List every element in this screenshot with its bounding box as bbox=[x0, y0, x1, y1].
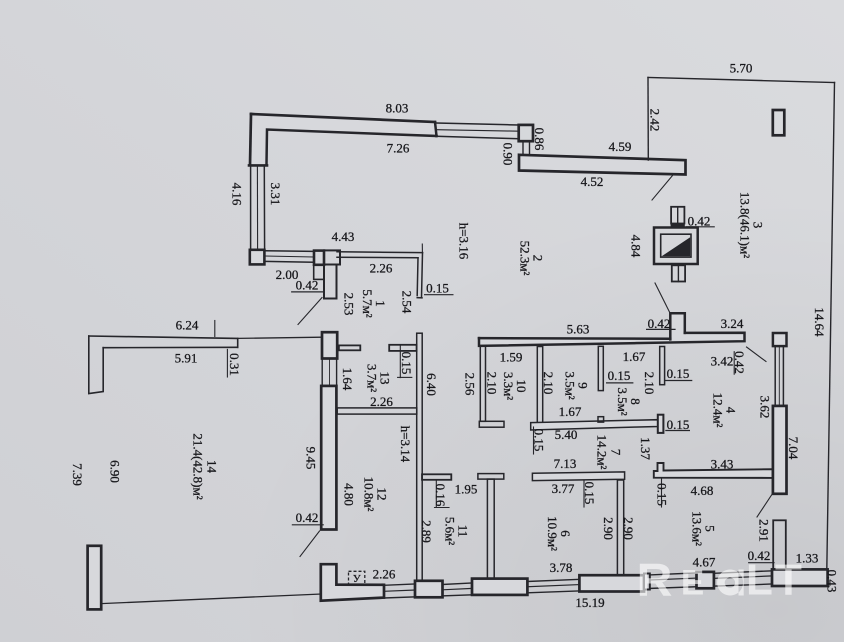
svg-text:0.15: 0.15 bbox=[426, 280, 449, 295]
svg-text:E: E bbox=[681, 564, 704, 603]
svg-text:T: T bbox=[775, 556, 802, 605]
svg-text:2.26: 2.26 bbox=[370, 261, 393, 276]
bottom corner bar 1.33 bbox=[772, 569, 828, 586]
bottom window lines 1 bbox=[384, 584, 415, 585]
left wall window 1.64 bbox=[322, 359, 336, 386]
svg-text:6.24: 6.24 bbox=[176, 318, 199, 333]
wall top right cap bbox=[435, 122, 437, 136]
bottom step notch bbox=[644, 574, 650, 590]
svg-text:5.6м²: 5.6м² bbox=[443, 517, 458, 545]
stove pipe top bbox=[671, 207, 684, 224]
wall rooms 8/4 bbox=[660, 347, 665, 385]
pier box B3 bbox=[314, 251, 324, 265]
pier end line B1 bbox=[249, 164, 267, 167]
pier room 11 bbox=[422, 474, 451, 480]
svg-text:0.42: 0.42 bbox=[732, 351, 747, 374]
stove inner bbox=[661, 234, 691, 257]
svg-text:52.3м²: 52.3м² bbox=[518, 241, 533, 276]
svg-text:2.91: 2.91 bbox=[757, 519, 772, 542]
room 6 right wall bbox=[617, 480, 623, 576]
wall band 4.59/4.52 bbox=[519, 155, 686, 175]
svg-text:2.90: 2.90 bbox=[621, 517, 636, 540]
wall top band fill bbox=[250, 114, 437, 166]
dim line 0.16 room 11 bbox=[435, 480, 437, 507]
svg-text:10.9м²: 10.9м² bbox=[545, 516, 560, 551]
svg-text:4.52: 4.52 bbox=[581, 174, 604, 189]
room 1 label bbox=[360, 289, 388, 317]
T cap wall room 11 bbox=[478, 474, 504, 480]
svg-text:4.80: 4.80 bbox=[342, 483, 357, 506]
door leader right 2.91 bbox=[757, 495, 772, 518]
svg-text:7.39: 7.39 bbox=[70, 463, 85, 486]
room 2 label bbox=[518, 241, 546, 276]
dim line 0.15 room 13 bbox=[399, 345, 401, 378]
bottom bar 2 bbox=[472, 579, 527, 595]
svg-text:14.64: 14.64 bbox=[812, 307, 827, 337]
svg-text:0.31: 0.31 bbox=[227, 353, 242, 376]
svg-text:13.6м²: 13.6м² bbox=[690, 511, 705, 546]
svg-text:0.42: 0.42 bbox=[296, 278, 319, 293]
room 3 outline left bbox=[647, 78, 649, 161]
svg-text:5.91: 5.91 bbox=[175, 351, 198, 366]
svg-text:2.10: 2.10 bbox=[541, 372, 556, 395]
room 14 top line continue bbox=[238, 337, 322, 338]
svg-text:1.67: 1.67 bbox=[623, 349, 646, 364]
room 1 wall right double bbox=[417, 253, 422, 298]
svg-text:15.19: 15.19 bbox=[575, 595, 604, 610]
pier P1 lower lines bbox=[523, 141, 530, 155]
room 9 label bbox=[563, 371, 591, 399]
room 14 left wall bbox=[89, 336, 103, 394]
dim line 0.42 right bbox=[733, 352, 735, 375]
svg-text:7: 7 bbox=[609, 449, 624, 456]
svg-text:5.40: 5.40 bbox=[555, 427, 578, 442]
room 11 label bbox=[443, 517, 471, 545]
svg-text:0.16: 0.16 bbox=[433, 484, 448, 507]
svg-text:21.4(42.8)м²: 21.4(42.8)м² bbox=[191, 433, 206, 499]
shelf right room 13 bbox=[389, 345, 416, 351]
room 3 window box bbox=[773, 110, 785, 135]
svg-text:4.84: 4.84 bbox=[629, 235, 644, 258]
room 5 label bbox=[690, 511, 718, 546]
svg-text:7.04: 7.04 bbox=[786, 437, 801, 460]
wall rooms 10/9 bbox=[537, 347, 542, 426]
room 3 outline top bbox=[648, 78, 835, 83]
room 10 label bbox=[501, 372, 529, 400]
svg-text:12.4м²: 12.4м² bbox=[711, 393, 726, 428]
room 14 top wall outer bbox=[89, 336, 238, 347]
svg-text:2.53: 2.53 bbox=[342, 293, 357, 316]
room 12 label bbox=[362, 477, 390, 512]
long wall 6.40/2.89 bbox=[417, 333, 423, 583]
door square room 7 bbox=[598, 417, 604, 422]
svg-text:6.40: 6.40 bbox=[424, 373, 439, 396]
leader stove to notch bbox=[655, 283, 670, 313]
bottom pier 1 bbox=[415, 581, 443, 598]
room 8 label bbox=[615, 387, 643, 415]
svg-text:4.43: 4.43 bbox=[332, 229, 355, 244]
door leader room 1 bbox=[298, 298, 322, 325]
door leader room 12 bbox=[300, 531, 320, 557]
svg-text:5.70: 5.70 bbox=[730, 61, 753, 76]
svg-text:2.26: 2.26 bbox=[370, 394, 393, 409]
window left (3.31) bbox=[251, 167, 265, 249]
svg-text:10.8м²: 10.8м² bbox=[362, 477, 377, 512]
svg-text:4.16: 4.16 bbox=[230, 183, 245, 206]
svg-text:3.78: 3.78 bbox=[550, 560, 573, 575]
svg-text:2.90: 2.90 bbox=[601, 517, 616, 540]
svg-text:0.15: 0.15 bbox=[667, 366, 690, 381]
svg-text:3.3м²: 3.3м² bbox=[501, 372, 516, 400]
room 3 outline right bbox=[827, 83, 835, 570]
pier white corner W4 bbox=[324, 250, 340, 264]
wall top inner (7.26) bbox=[267, 130, 437, 165]
svg-text:0.15: 0.15 bbox=[582, 482, 597, 505]
svg-text:14.2м²: 14.2м² bbox=[595, 435, 610, 470]
svg-text:2.26: 2.26 bbox=[373, 567, 396, 582]
bottom window lines 5 bbox=[714, 571, 772, 574]
svg-text:0.42: 0.42 bbox=[648, 316, 671, 331]
svg-text:3.42: 3.42 bbox=[711, 354, 734, 369]
bottom wall outer line bbox=[384, 584, 772, 598]
room 7 label bbox=[595, 435, 624, 470]
svg-text:R: R bbox=[637, 554, 673, 606]
door symbol bottom bbox=[349, 571, 365, 584]
svg-text:0.15: 0.15 bbox=[655, 483, 670, 506]
bottom window lines 4 bbox=[650, 573, 697, 575]
svg-text:4.59: 4.59 bbox=[609, 139, 632, 154]
svg-text:1.59: 1.59 bbox=[500, 350, 523, 365]
watermark letter a bbox=[717, 570, 744, 596]
svg-text:L: L bbox=[746, 556, 773, 605]
svg-text:3.31: 3.31 bbox=[268, 183, 283, 206]
svg-text:5.7м²: 5.7м² bbox=[360, 289, 375, 317]
wall 3.43/4.68 bbox=[654, 463, 773, 478]
svg-text:4.68: 4.68 bbox=[691, 483, 714, 498]
svg-text:2.56: 2.56 bbox=[463, 373, 478, 396]
svg-text:0.42: 0.42 bbox=[296, 510, 319, 525]
shelf left room 13 bbox=[339, 345, 360, 350]
bottom window lines 3 bbox=[527, 579, 579, 581]
svg-text:У: У bbox=[353, 573, 361, 585]
svg-text:0.15: 0.15 bbox=[667, 417, 690, 432]
bottom window lines 2 bbox=[443, 583, 473, 585]
bottom pier 4.67 bbox=[697, 572, 714, 588]
room 14 lower pier bbox=[88, 546, 102, 610]
stove outer bbox=[654, 228, 698, 265]
stove pipe bottom bbox=[672, 265, 685, 281]
dim line 0.15 room 6 bbox=[583, 481, 585, 507]
leader wall 3.42 bbox=[747, 347, 767, 362]
svg-text:3.5м²: 3.5м² bbox=[615, 387, 630, 415]
pier white column W5 bbox=[324, 265, 337, 299]
bottom bar 3 (15.19) bbox=[579, 575, 644, 591]
svg-text:2.54: 2.54 bbox=[400, 291, 415, 314]
room 1 wall top double bbox=[337, 252, 423, 258]
svg-text:8.03: 8.03 bbox=[386, 101, 409, 116]
left wall top bar bbox=[322, 332, 337, 358]
svg-text:3.5м²: 3.5м² bbox=[563, 371, 578, 399]
svg-text:2.10: 2.10 bbox=[485, 372, 500, 395]
window top (0.90) bbox=[437, 123, 519, 139]
svg-text:1.64: 1.64 bbox=[340, 368, 355, 391]
wall top outer (8.03) bbox=[251, 114, 435, 122]
svg-text:2.10: 2.10 bbox=[642, 372, 657, 395]
svg-text:h=3.16: h=3.16 bbox=[457, 223, 472, 260]
right wall top box bbox=[773, 333, 787, 346]
room 3 label bbox=[738, 192, 766, 258]
room 13 label bbox=[365, 364, 393, 392]
room 10 left wall bbox=[480, 346, 485, 421]
svg-text:3.24: 3.24 bbox=[721, 316, 744, 331]
svg-text:13.8(46.1)м²: 13.8(46.1)м² bbox=[738, 192, 753, 258]
svg-text:2.89: 2.89 bbox=[419, 520, 434, 543]
dim line 0.31 bbox=[226, 349, 228, 377]
svg-text:7.26: 7.26 bbox=[387, 141, 410, 156]
wall 7.13 bbox=[532, 472, 624, 481]
svg-text:14: 14 bbox=[205, 460, 220, 474]
room 14 label bbox=[191, 433, 220, 499]
pier P2 bbox=[658, 415, 664, 433]
svg-text:0.43: 0.43 bbox=[825, 570, 840, 593]
svg-text:1.37: 1.37 bbox=[638, 437, 653, 460]
svg-text:2.42: 2.42 bbox=[648, 109, 663, 132]
pier P1 (0.86) bbox=[519, 125, 533, 141]
wall rooms 13/12 bbox=[337, 408, 417, 414]
room 14 top wall inner bbox=[103, 346, 238, 348]
left wall long bar 9.45/4.80 bbox=[321, 386, 336, 530]
wall rooms 9/8 bbox=[598, 346, 603, 390]
room 4 label bbox=[711, 393, 739, 428]
dim tick 6.24 bbox=[214, 321, 216, 337]
pier box B2 bbox=[250, 250, 265, 265]
room 6 label bbox=[545, 516, 573, 551]
svg-text:h=3.14: h=3.14 bbox=[398, 426, 413, 463]
svg-text:0.15: 0.15 bbox=[399, 352, 414, 375]
dim line 0.15 wall 5.40 bbox=[533, 427, 535, 454]
room 14 bottom line bbox=[101, 594, 321, 604]
leader from wall 4.52 bbox=[652, 176, 673, 201]
door jamb W6 bbox=[314, 265, 324, 279]
L wall bottom left bbox=[321, 564, 384, 601]
stove triangle bbox=[662, 237, 691, 256]
dim line 0.15 room 5 bbox=[661, 478, 663, 507]
wall band 5.63/3.24 bbox=[479, 313, 745, 346]
right wall long bar 7.04 bbox=[773, 406, 787, 494]
tick room 1 corner bbox=[421, 244, 423, 252]
wall 5.40 bbox=[531, 420, 658, 430]
svg-text:3.43: 3.43 bbox=[711, 457, 734, 472]
svg-text:1.95: 1.95 bbox=[455, 482, 478, 497]
svg-text:0.15: 0.15 bbox=[608, 368, 631, 383]
svg-text:3.7м²: 3.7м² bbox=[365, 364, 380, 392]
svg-text:3.77: 3.77 bbox=[552, 481, 575, 496]
right wall window 3.62 bbox=[775, 346, 783, 406]
svg-text:0.15: 0.15 bbox=[532, 429, 547, 452]
wall left outer (4.16) bbox=[250, 114, 251, 165]
svg-text:7.13: 7.13 bbox=[554, 456, 577, 471]
svg-text:6.90: 6.90 bbox=[108, 460, 123, 483]
T stem wall rooms 11/6 bbox=[487, 479, 494, 580]
room 10 bottom wall bbox=[479, 421, 504, 427]
svg-text:1.67: 1.67 bbox=[559, 404, 582, 419]
svg-text:9.45: 9.45 bbox=[304, 447, 319, 470]
svg-text:0.90: 0.90 bbox=[501, 143, 516, 166]
svg-text:3.62: 3.62 bbox=[758, 396, 773, 419]
window horizontal (2.00) bbox=[265, 251, 314, 262]
right window column 0.42 bbox=[773, 520, 786, 569]
svg-text:0.86: 0.86 bbox=[532, 128, 547, 151]
svg-text:5.63: 5.63 bbox=[567, 322, 590, 337]
